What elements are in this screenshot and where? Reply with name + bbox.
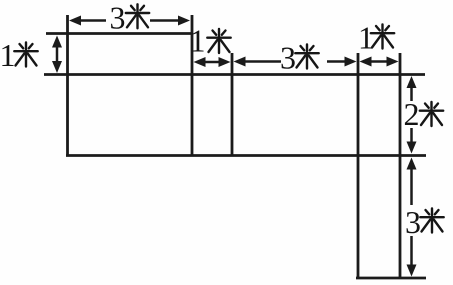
dimension arrow 1mi left vertical (52, 36, 62, 74)
dimension arrow 3mi right vertical (407, 158, 417, 277)
vertical line A left edge (66, 15, 69, 157)
dimension arrow 1mi upper (194, 57, 231, 67)
label 2mi right (404, 96, 444, 132)
band bottom edge (66, 154, 426, 157)
label 3mi bottom right (405, 204, 444, 240)
svg-text:1: 1 (358, 20, 374, 56)
svg-text:1: 1 (190, 23, 206, 59)
svg-text:3: 3 (110, 0, 126, 36)
label 3mi top (110, 0, 150, 36)
dimension arrow 3mi top (69, 16, 190, 26)
top rectangle top edge (46, 32, 193, 35)
label 3mi middle (280, 40, 319, 76)
label 1mi left (0, 37, 38, 73)
svg-text:3: 3 (280, 40, 296, 76)
vertical line E right edge (399, 53, 402, 279)
svg-text:2: 2 (404, 96, 420, 132)
dimension arrow 2mi right vertical (407, 76, 417, 154)
label 1mi right top (358, 20, 394, 56)
dimension arrow 1mi right top (360, 57, 399, 67)
vertical line B (191, 15, 194, 157)
main horizontal line (44, 73, 425, 76)
label 1mi upper (190, 23, 231, 59)
svg-text:1: 1 (0, 37, 16, 73)
bottom edge of vertical rectangle (356, 277, 426, 280)
vertical line D (357, 53, 360, 279)
dimension arrow 3mi middle (234, 57, 357, 67)
svg-text:3: 3 (405, 204, 421, 240)
vertical line C (231, 53, 234, 157)
